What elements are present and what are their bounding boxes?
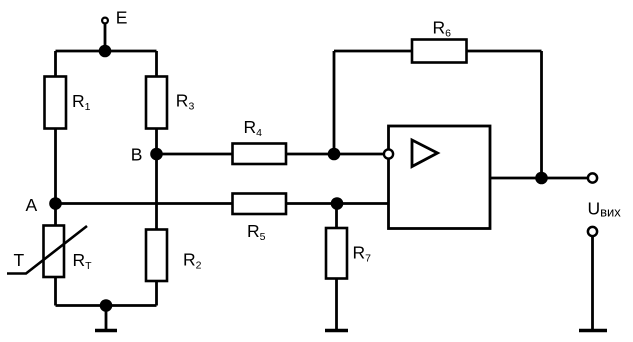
svg-text:E: E [116, 8, 128, 28]
svg-text:B: B [131, 145, 143, 165]
svg-text:T: T [14, 250, 25, 270]
svg-text:A: A [26, 195, 38, 215]
